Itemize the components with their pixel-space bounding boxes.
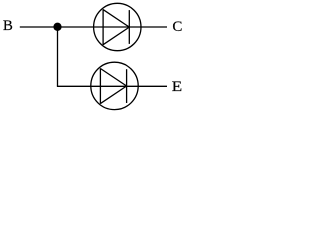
diode D1 circle (base-collector)	[94, 3, 141, 50]
diode D1 triangle	[103, 10, 129, 45]
svg-text:C: C	[172, 19, 182, 35]
diode D2 cathode bar	[126, 69, 128, 103]
svg-text:B: B	[3, 18, 13, 34]
wire junction down	[57, 27, 59, 86]
diode D2 triangle	[100, 69, 126, 104]
svg-text:E: E	[172, 79, 183, 95]
wire to emitter diode (through circle)	[57, 85, 167, 87]
junction dot	[53, 23, 61, 31]
wire B to collector diode (through circle)	[20, 26, 167, 28]
diode D2 circle (base-emitter)	[91, 62, 138, 109]
diode D1 cathode bar	[128, 10, 130, 44]
